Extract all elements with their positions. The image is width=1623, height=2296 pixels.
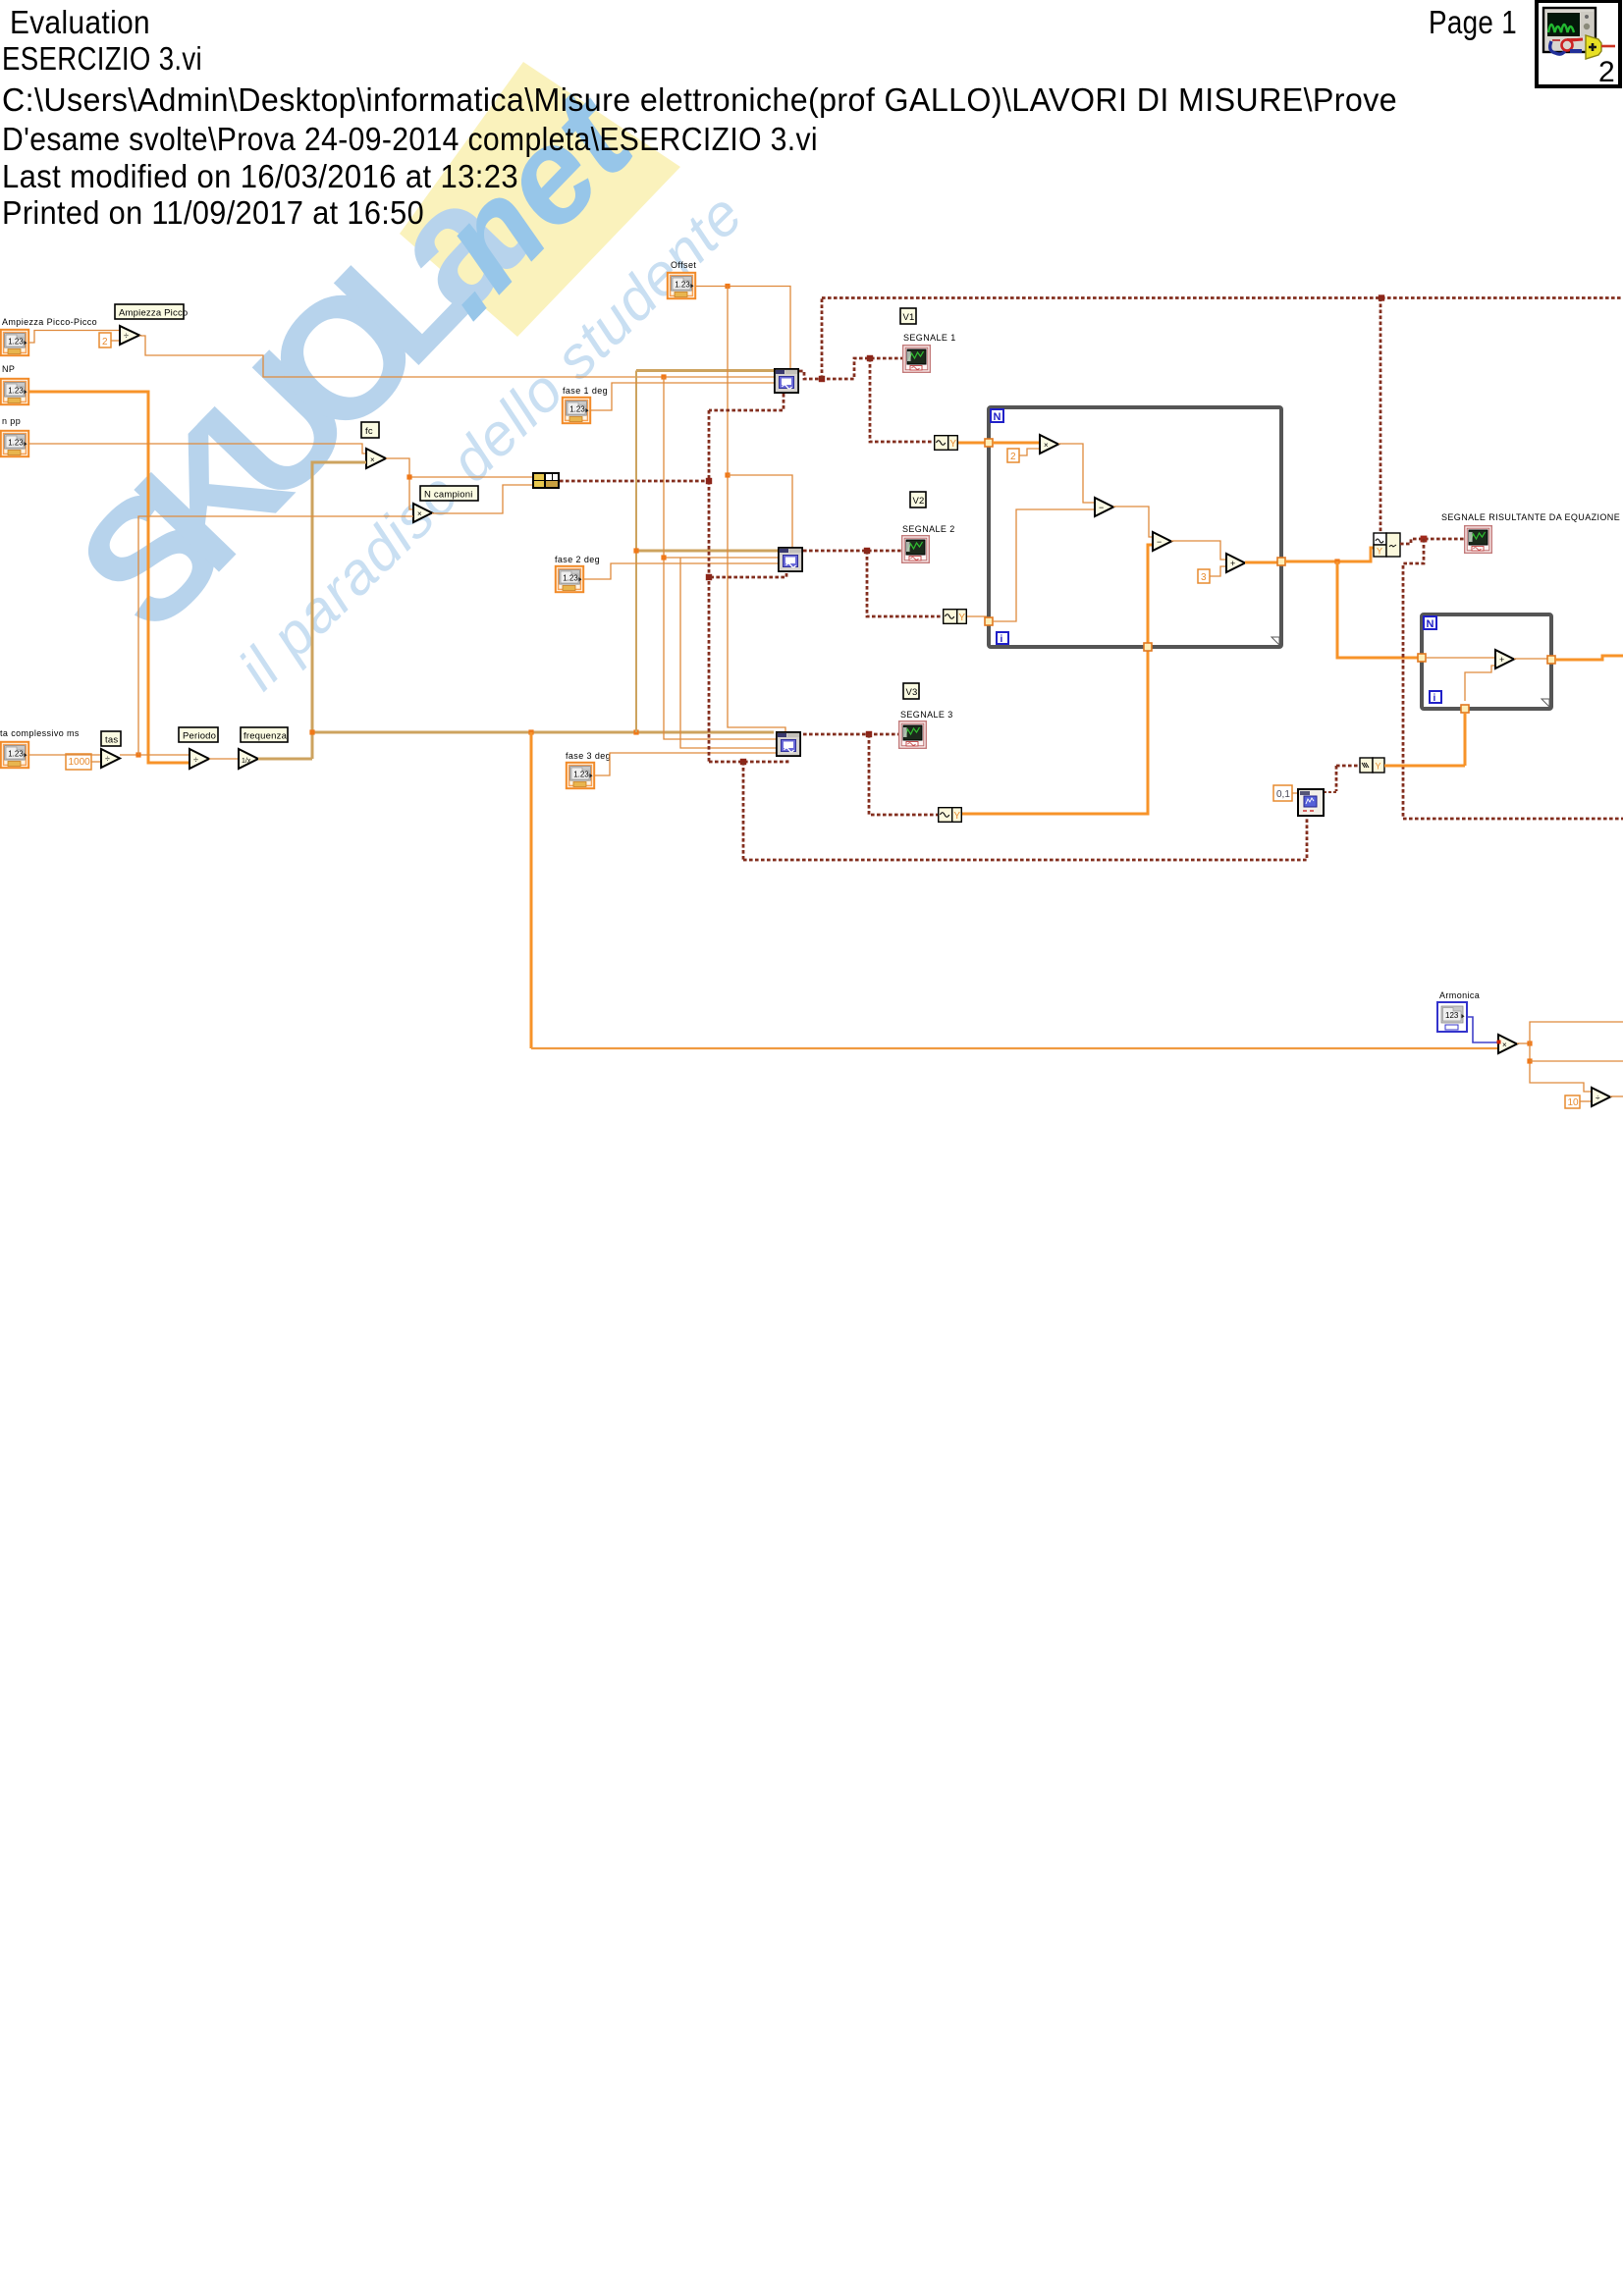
tunnel loop1 left upper	[985, 439, 993, 447]
wire N campioni out to bundle lower input	[432, 485, 533, 513]
framed label V1	[900, 308, 916, 324]
wire 3 to add	[1210, 566, 1226, 576]
divide tas	[101, 749, 120, 768]
control NP	[1, 379, 28, 404]
svg-text:Offset: Offset	[671, 260, 696, 270]
framed label tas	[101, 731, 121, 746]
multiply N campioni	[413, 504, 432, 522]
framed label N campioni	[420, 486, 478, 501]
wire fase1 to icon1	[591, 383, 774, 410]
junction dotted x722 y588	[706, 574, 712, 580]
svg-text:Page 1: Page 1	[1429, 4, 1517, 40]
freq rail riser x648 to icon1 top rail	[635, 371, 637, 733]
basic function generator 2	[779, 548, 802, 571]
svg-text:fase 2 deg: fase 2 deg	[555, 555, 600, 564]
junction dotted x885	[866, 731, 872, 737]
branch x648 to icon2 (thick)	[636, 550, 778, 553]
control Offset	[668, 273, 695, 298]
icon3 bottom dotted link	[709, 759, 787, 762]
junction dotted x757	[740, 759, 746, 765]
wire offset branch to icon2 top	[728, 475, 792, 547]
junction x1362	[1334, 559, 1339, 563]
wire add2 to right tunnel	[1514, 658, 1547, 660]
framed label Periodo	[179, 727, 218, 742]
multiply in loop1	[1040, 435, 1058, 454]
svg-text:10: 10	[1568, 1097, 1580, 1108]
wire multiply to subtract1	[1058, 444, 1095, 503]
svg-text:Periodo: Periodo	[183, 731, 216, 742]
svg-text:N campioni: N campioni	[424, 490, 473, 501]
svg-text:×: ×	[417, 509, 422, 518]
control fase 1 deg	[563, 398, 590, 423]
wire Y2 to loop tunnel	[967, 616, 989, 621]
wire 2 to multiply	[1019, 449, 1040, 455]
junction amplitude rail x676	[661, 374, 666, 379]
svg-text:ESERCIZIO 3.vi: ESERCIZIO 3.vi	[2, 40, 202, 77]
control Armonica (I32 blue)	[1437, 1002, 1467, 1032]
constant 2 in loop	[1007, 449, 1019, 462]
frequency rail to icon3 (thick tan)	[312, 731, 774, 734]
svg-text:fase 3 deg: fase 3 deg	[566, 751, 611, 761]
dotted drop x886 to Y1	[870, 358, 934, 442]
icon1 bottom dotted loop	[709, 394, 784, 410]
svg-text:Ampiezza Picco: Ampiezza Picco	[119, 308, 188, 319]
chart SEGNALE 1	[903, 346, 931, 373]
get Y components 2	[944, 610, 967, 624]
tunnel loop2 right	[1547, 656, 1555, 664]
divide (Ampiezza Picco)	[120, 326, 139, 345]
wire 10 to divide	[1580, 1100, 1592, 1102]
wire Offset to icon1 top	[696, 287, 790, 369]
wire 1000 to tas divide	[91, 761, 101, 763]
junction dotted x886	[867, 355, 873, 361]
wire frequenza riser to fc	[312, 462, 366, 759]
dotted drop x885 to Y3	[869, 734, 938, 815]
svg-text:1000: 1000	[69, 757, 91, 768]
svg-text:1/x: 1/x	[242, 758, 251, 765]
wire Ampiezza control to divide	[29, 331, 120, 344]
svg-text:N: N	[1427, 618, 1434, 630]
wire tunnel to add2	[1426, 657, 1495, 659]
wire Y4 out to loop2 bottom drop (thick)	[1384, 765, 1465, 768]
svg-text:−: −	[1157, 537, 1162, 547]
svg-text:V2: V2	[913, 496, 925, 507]
divide Periodo	[189, 749, 209, 769]
svg-text:−: −	[1099, 503, 1104, 512]
top dotted rail	[822, 296, 1623, 299]
svg-text:i: i	[1434, 693, 1436, 704]
junction x1558 upper	[1527, 1041, 1532, 1045]
wire branch down to loop2	[1337, 561, 1418, 658]
dotted out of build waveform to chart R	[1400, 539, 1464, 544]
svg-text:SEGNALE 1: SEGNALE 1	[903, 333, 956, 343]
svg-text:fase 1 deg: fase 1 deg	[563, 386, 608, 396]
bundle node	[532, 472, 560, 489]
add in loop2	[1495, 650, 1514, 668]
control n pp	[1, 431, 28, 456]
rail x693 to icon3	[680, 558, 776, 748]
framed label Ampiezza Picco	[115, 304, 184, 319]
wire add to right tunnel (thick)	[1245, 561, 1277, 564]
wire fc out to bundle and N campioni multiply	[386, 458, 413, 509]
control fase 3 deg	[567, 763, 594, 788]
junction x1558 lower	[1527, 1058, 1532, 1063]
wire Periodo out to reciprocal	[209, 758, 239, 760]
svg-text:+: +	[1230, 559, 1235, 568]
svg-text:×: ×	[370, 455, 375, 464]
svg-text:SEGNALE 3: SEGNALE 3	[900, 710, 953, 720]
junction dotted x1450	[1421, 536, 1428, 543]
wire ta control to tas divide	[29, 754, 101, 756]
wire divide out to right edge	[1610, 1095, 1623, 1097]
wire subtract2 to add	[1171, 541, 1226, 560]
junction offset rail y484	[725, 472, 730, 477]
wire npp to fc multiply	[29, 444, 366, 454]
dotted drop x757 to long bottom dotted rail	[742, 762, 745, 860]
framed label V2	[910, 492, 926, 507]
wire multiply out to junction	[1517, 1042, 1530, 1044]
svg-text:NP: NP	[2, 364, 15, 374]
svg-text:i: i	[1001, 634, 1003, 645]
framed label V3	[903, 683, 919, 699]
tunnel loop1 right	[1277, 558, 1285, 565]
loop1 count terminal N	[991, 409, 1003, 422]
dotted drop x883 to Y2	[867, 551, 943, 616]
wire bundle out dotted to x722 rail	[560, 480, 709, 483]
svg-text:SEGNALE 2: SEGNALE 2	[902, 524, 955, 534]
junction tas rail	[135, 752, 140, 757]
wire icon1 out dotted	[799, 358, 902, 379]
wire Y3 to loop1 bottom tunnel (thick)	[962, 647, 1148, 814]
loop2 iteration terminal i	[1430, 691, 1441, 703]
bottom long rail to Armonica multiply (thick)	[531, 1047, 1498, 1049]
loop2 count terminal N	[1424, 616, 1436, 629]
wire divide out to amplitude rail	[139, 336, 774, 377]
subtract 2	[1153, 532, 1171, 551]
get Y components 1	[935, 436, 958, 451]
svg-text:C:\Users\Admin\Desktop\informa: C:\Users\Admin\Desktop\informatica\Misur…	[2, 81, 1397, 118]
add in loop1	[1226, 554, 1245, 572]
wire offset rail down to icon3 top	[728, 287, 785, 732]
dotted drop to lower right rail	[1403, 539, 1424, 819]
framed label fc	[361, 422, 379, 438]
svg-text:V1: V1	[903, 312, 915, 323]
svg-text:fc: fc	[365, 426, 373, 437]
svg-text:N: N	[994, 411, 1001, 423]
amplitude drop x676 to icon2 and icon3	[664, 377, 776, 739]
yellow parallelogram	[400, 62, 680, 337]
svg-text:Evaluation: Evaluation	[10, 4, 150, 40]
subtract 1	[1095, 498, 1113, 516]
dotted drop from top rail to build waveform	[1380, 298, 1382, 534]
svg-text:+: +	[1499, 655, 1504, 665]
divide bottom right	[1592, 1088, 1610, 1106]
svg-text:Last modified on 16/03/2016 at: Last modified on 16/03/2016 at 13:23	[2, 158, 518, 194]
long dotted rail to right edge	[1403, 818, 1623, 821]
svg-text:×: ×	[1502, 1041, 1507, 1049]
loop1 iteration terminal i	[997, 632, 1008, 644]
svg-text:÷: ÷	[193, 755, 198, 765]
control ta complessivo ms	[1, 742, 28, 768]
wire tas rail to N campioni lower input	[139, 515, 413, 517]
wire loop1 out to build waveform (thick)	[1285, 548, 1374, 561]
svg-text:SEGNALE RISULTANTE DA EQUAZION: SEGNALE RISULTANTE DA EQUAZIONE S	[1441, 512, 1623, 522]
wire tunnel2 up to subtract1 lower input	[993, 509, 1095, 621]
constant 10	[1565, 1095, 1580, 1108]
svg-text:D'esame svolte\Prova 24-09-201: D'esame svolte\Prova 24-09-2014 completa…	[2, 121, 818, 157]
icon2 out dotted	[803, 550, 901, 553]
junction offset rail x741	[725, 284, 730, 289]
wire NP to Periodo divide (thick)	[29, 392, 189, 763]
constant 1000	[66, 754, 91, 770]
junction fc branch	[406, 474, 411, 479]
wire fase2 to icon2	[584, 563, 778, 579]
basic function generator 1	[775, 369, 798, 393]
get Y components 3	[939, 808, 962, 823]
junction freq rail x318	[309, 729, 314, 734]
svg-text:V3: V3	[906, 687, 918, 698]
svg-text:frequenza: frequenza	[243, 731, 288, 742]
wire subtract1 to subtract2	[1113, 507, 1153, 537]
chart SEGNALE 3	[899, 721, 927, 749]
junction dotted x883	[864, 548, 870, 554]
spectral measurement icon	[1298, 789, 1324, 816]
for-loop 1 border	[989, 407, 1281, 647]
wire loop2 out to right edge (thick)	[1555, 656, 1623, 660]
control fase 2 deg	[556, 566, 583, 592]
chart SEGNALE 2	[902, 536, 930, 563]
wire fase3 to icon3	[595, 753, 776, 775]
svg-text:0,1: 0,1	[1276, 789, 1290, 800]
constant 0,1	[1273, 785, 1292, 801]
build waveform icon	[1374, 533, 1400, 557]
svg-text:÷: ÷	[1596, 1094, 1600, 1102]
junction dotted x837	[819, 376, 825, 382]
dotted riser x837 to top rail	[821, 298, 824, 380]
multiply fc	[366, 449, 386, 468]
junction freq rail x648	[633, 729, 638, 734]
svg-text:n pp: n pp	[2, 416, 21, 426]
svg-text:123: 123	[1445, 1011, 1459, 1020]
wire tunnel to multiply (thick)	[993, 442, 1040, 445]
wire 0,1 to spectral icon	[1292, 792, 1298, 794]
framed label frequenza	[241, 727, 288, 742]
tunnel loop1 bottom	[1144, 643, 1152, 651]
constant 2	[99, 333, 111, 347]
svg-text:2: 2	[1010, 452, 1016, 462]
wire loop2 bottom tunnel down (thick)	[1464, 713, 1467, 766]
dotted rail x722	[708, 410, 711, 762]
wire frequenza out (thick tan)	[258, 758, 312, 761]
chart SEGNALE RISULTANTE	[1465, 526, 1492, 554]
wire branch up to right edge	[1530, 1022, 1623, 1043]
svg-text:tas: tas	[105, 735, 118, 746]
svg-text:÷: ÷	[124, 331, 129, 341]
wire drop to bottom rail (thick)	[530, 732, 533, 1048]
svg-text:×: ×	[1044, 441, 1049, 450]
wire branch right at 1081	[1530, 1060, 1623, 1062]
constant 3 in loop	[1198, 569, 1210, 583]
icon2 bottom dotted loop	[709, 573, 786, 577]
svg-text:Ampiezza Picco-Picco: Ampiezza Picco-Picco	[2, 317, 97, 327]
svg-text:2: 2	[102, 337, 108, 347]
wire Armonica to multiply (blue)	[1467, 1017, 1498, 1042]
junction freq rail x541	[528, 729, 533, 734]
dotted from spectral icon up to Y4	[1335, 766, 1338, 791]
svg-text:÷: ÷	[105, 754, 110, 764]
get Y components 4	[1360, 758, 1384, 773]
wire loop1 bottom tunnel riser (thick)	[1148, 545, 1153, 643]
tunnel loop2 bottom	[1461, 705, 1469, 713]
tunnel loop2 left	[1418, 654, 1426, 662]
control Ampiezza Picco-Picco	[1, 330, 28, 355]
wire tas out to Periodo divide	[120, 754, 189, 756]
junction dotted x722 y490	[706, 478, 712, 484]
svg-text:Armonica: Armonica	[1439, 990, 1480, 1000]
svg-text:Printed on 11/09/2017 at 16:50: Printed on 11/09/2017 at 16:50	[2, 194, 424, 231]
wire Y1 to loop tunnel (thick)	[958, 442, 989, 445]
wire bottom tunnel riser to add2	[1465, 666, 1495, 701]
reciprocal frequenza	[239, 749, 258, 769]
for-loop 2 border	[1422, 614, 1551, 709]
wire constant 2 to divide	[111, 340, 120, 342]
wire tas riser to N campioni rail	[138, 516, 139, 755]
long dotted rail to spectral icon	[743, 816, 1307, 860]
junction top rail x1407	[1379, 294, 1384, 300]
svg-text:3: 3	[1201, 572, 1207, 583]
icon3 out dotted	[803, 733, 898, 736]
tunnel loop1 left lower	[985, 617, 993, 625]
svg-text:Y: Y	[1376, 762, 1381, 772]
basic function generator 3	[777, 732, 800, 756]
svg-text:Y: Y	[1377, 547, 1382, 557]
svg-text:2: 2	[1598, 56, 1615, 88]
svg-text:ta complessivo ms: ta complessivo ms	[0, 728, 80, 738]
multiply Armonica	[1498, 1035, 1517, 1053]
wire branch down	[1530, 1043, 1592, 1092]
